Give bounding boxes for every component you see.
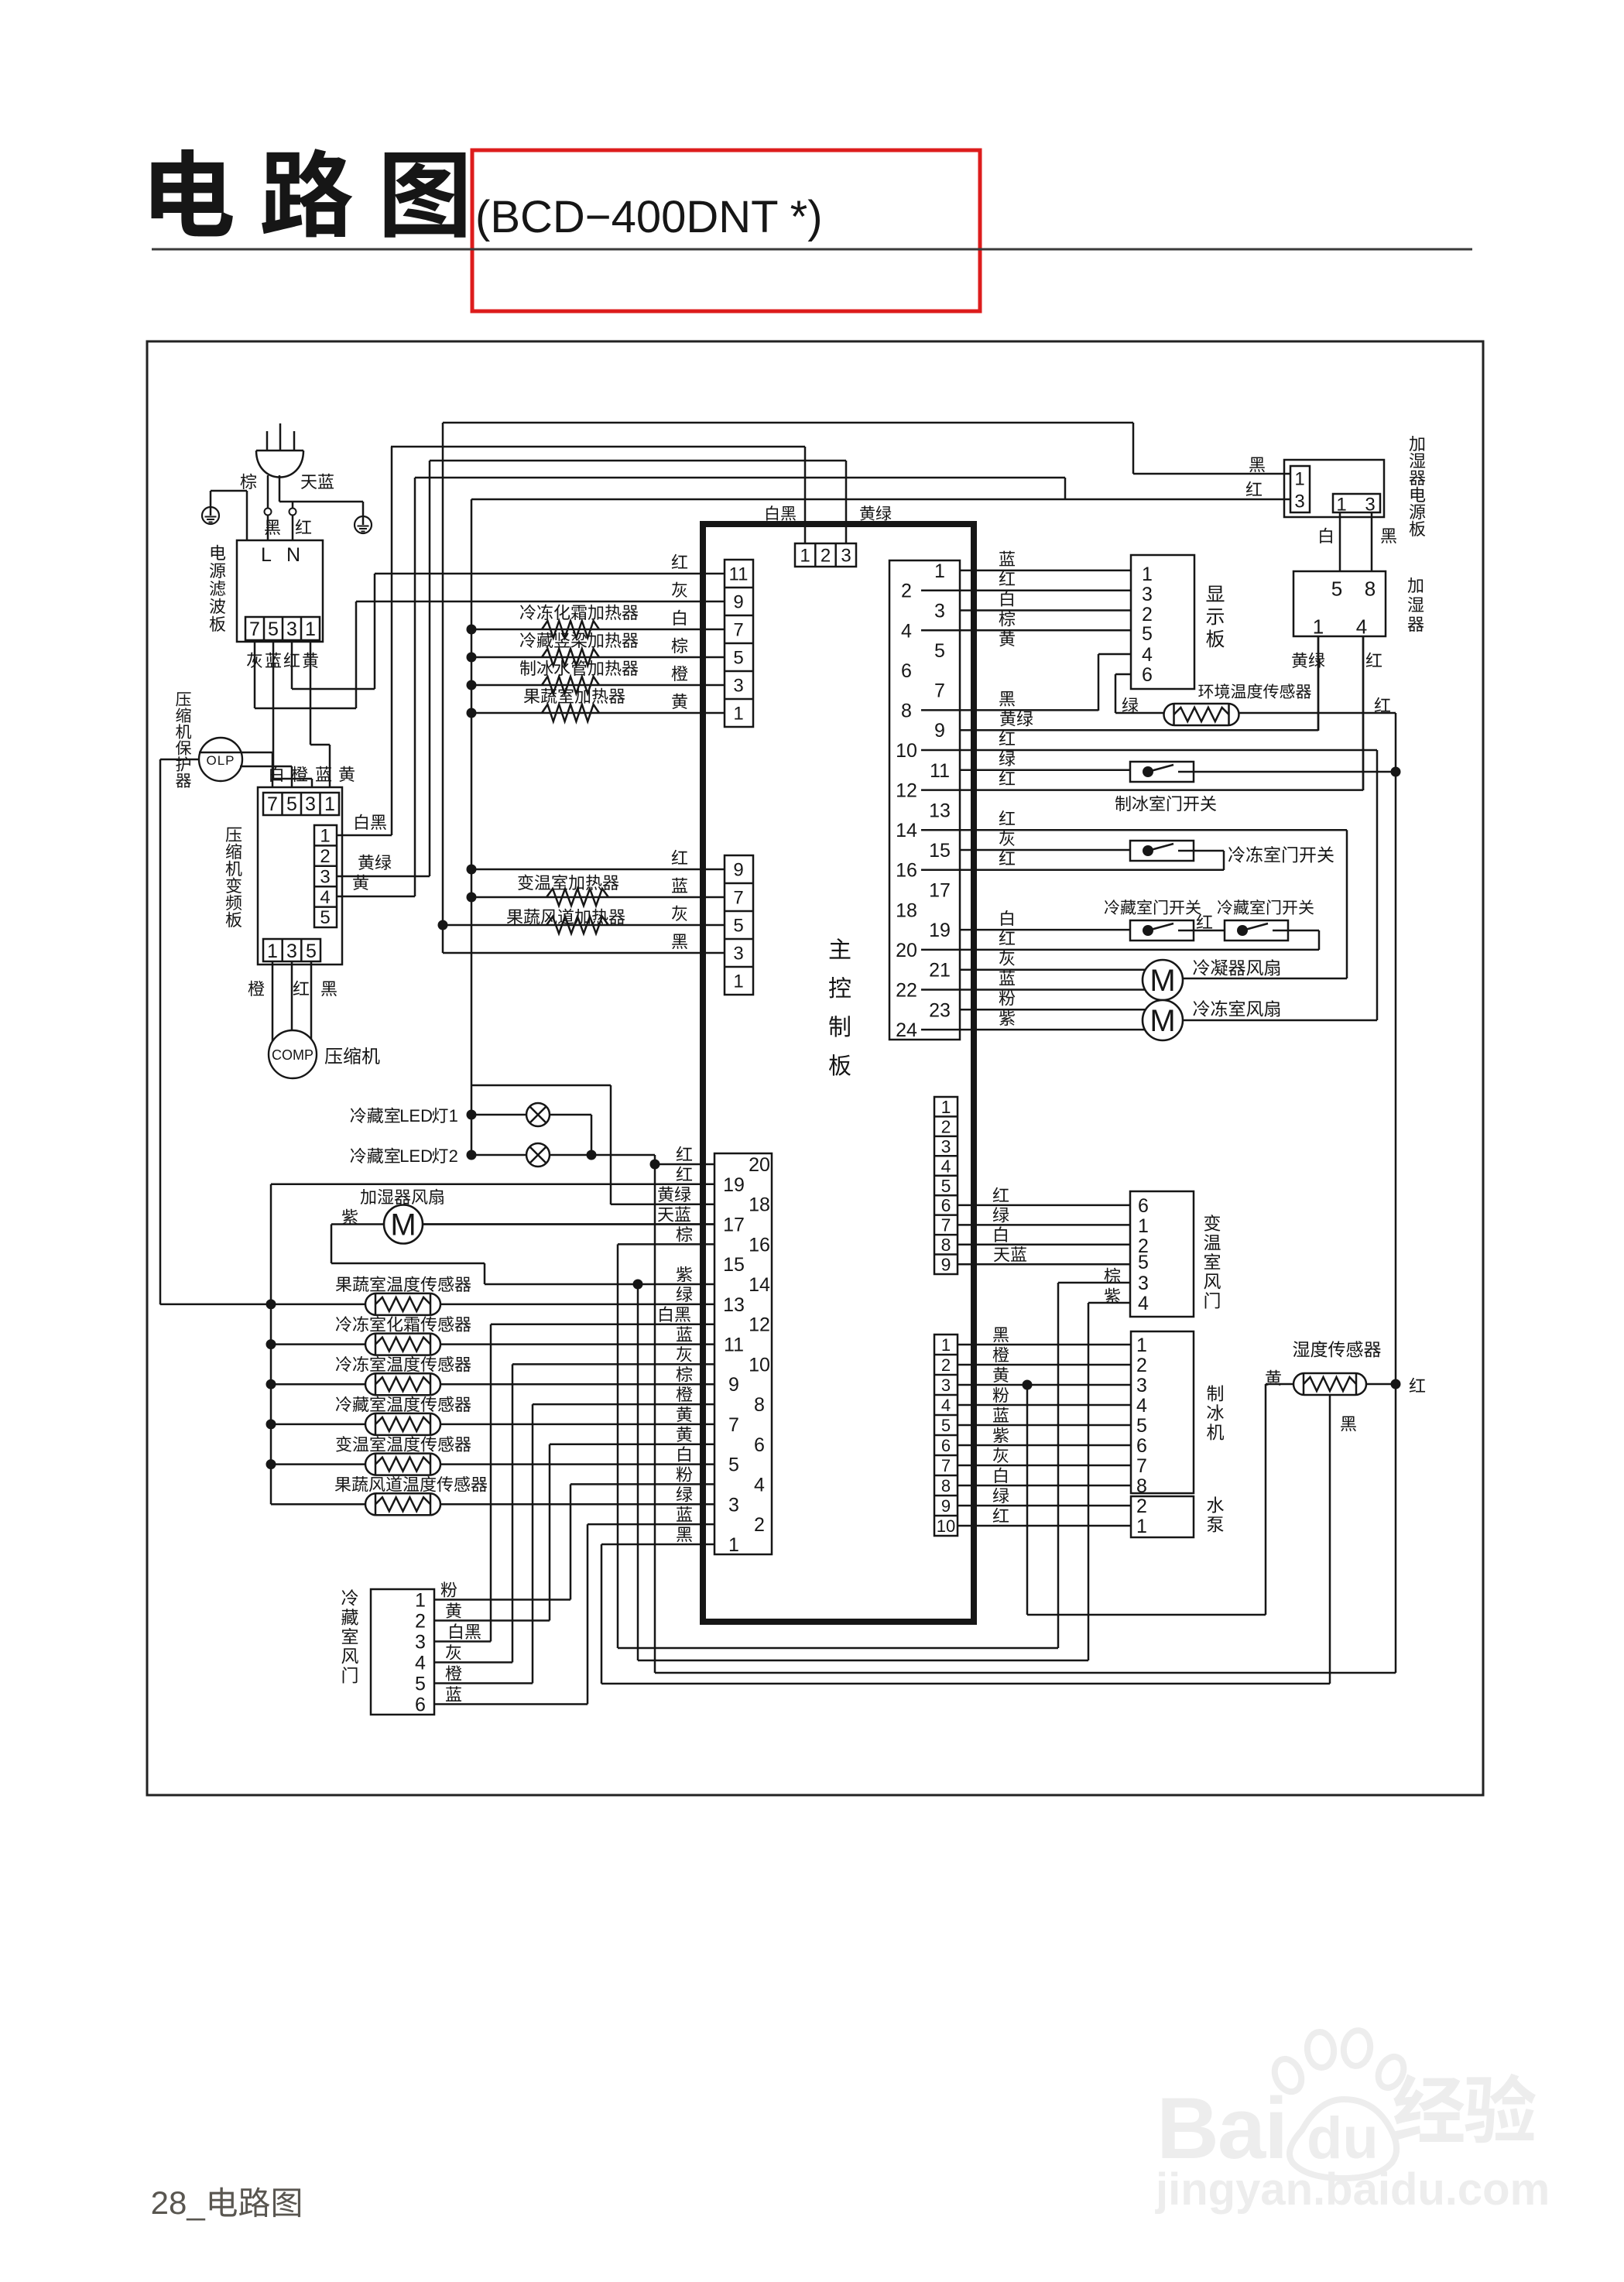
svg-text:7: 7 (267, 793, 278, 815)
svg-text:1: 1 (305, 618, 316, 640)
svg-text:3: 3 (728, 1494, 739, 1516)
svg-text:23: 23 (929, 999, 951, 1021)
svg-text:18: 18 (749, 1194, 770, 1216)
svg-text:1: 1 (1313, 615, 1324, 638)
svg-text:7: 7 (249, 618, 260, 640)
svg-text:L: L (261, 544, 272, 566)
svg-text:4: 4 (1356, 615, 1367, 638)
svg-text:1: 1 (1142, 564, 1153, 585)
svg-text:5: 5 (1136, 1415, 1147, 1437)
svg-text:6: 6 (901, 660, 912, 682)
svg-text:14: 14 (749, 1274, 770, 1296)
svg-text:7: 7 (733, 620, 743, 641)
svg-text:2: 2 (821, 546, 831, 567)
svg-text:1: 1 (1136, 1516, 1147, 1537)
svg-text:1: 1 (267, 941, 278, 962)
svg-text:1: 1 (941, 1097, 951, 1117)
svg-text:17: 17 (929, 880, 951, 902)
svg-text:LED: LED (399, 1106, 433, 1126)
svg-text:5: 5 (728, 1455, 739, 1476)
svg-text:4: 4 (1136, 1395, 1147, 1417)
svg-text:6: 6 (941, 1195, 951, 1215)
svg-text:1: 1 (800, 546, 810, 567)
svg-text:7: 7 (941, 1215, 951, 1235)
svg-text:16: 16 (896, 860, 917, 882)
svg-text:2: 2 (941, 1355, 951, 1375)
svg-text:3: 3 (286, 941, 297, 962)
svg-text:2: 2 (941, 1116, 951, 1136)
svg-text:3: 3 (320, 866, 330, 887)
svg-text:N: N (286, 544, 300, 566)
svg-text:3: 3 (415, 1632, 426, 1653)
svg-text:3: 3 (1142, 584, 1153, 605)
svg-text:9: 9 (934, 720, 945, 742)
svg-text:20: 20 (896, 940, 917, 961)
svg-text:8: 8 (754, 1394, 765, 1416)
svg-text:9: 9 (941, 1255, 951, 1275)
svg-text:5: 5 (733, 648, 743, 669)
svg-text:3: 3 (733, 676, 743, 697)
svg-text:5: 5 (320, 907, 330, 928)
svg-text:3: 3 (286, 618, 297, 640)
svg-text:13: 13 (929, 800, 951, 821)
svg-text:4: 4 (754, 1474, 765, 1496)
svg-text:6: 6 (941, 1436, 951, 1455)
svg-text:9: 9 (728, 1374, 739, 1396)
svg-text:8: 8 (901, 700, 912, 721)
svg-text:7: 7 (934, 680, 945, 702)
svg-text:10: 10 (937, 1516, 955, 1536)
svg-text:1: 1 (728, 1534, 739, 1556)
svg-text:15: 15 (723, 1254, 745, 1276)
svg-text:5: 5 (934, 640, 945, 662)
svg-text:14: 14 (896, 820, 917, 841)
svg-text:1: 1 (934, 560, 945, 582)
svg-text:M: M (1149, 964, 1175, 998)
svg-text:3: 3 (1294, 492, 1304, 512)
svg-text:M: M (1149, 1004, 1175, 1038)
svg-text:10: 10 (896, 740, 917, 762)
svg-text:4: 4 (415, 1653, 426, 1674)
svg-text:1: 1 (733, 971, 743, 992)
svg-text:3: 3 (941, 1376, 951, 1395)
svg-text:2: 2 (415, 1611, 426, 1633)
svg-text:3: 3 (941, 1136, 951, 1156)
svg-text:6: 6 (415, 1694, 426, 1716)
svg-text:4: 4 (1142, 644, 1153, 666)
svg-text:6: 6 (754, 1434, 765, 1456)
svg-text:5: 5 (941, 1176, 951, 1196)
svg-text:24: 24 (896, 1019, 917, 1041)
svg-text:5: 5 (268, 618, 279, 640)
svg-text:9: 9 (733, 860, 743, 881)
svg-text:3: 3 (841, 546, 851, 567)
svg-text:5: 5 (733, 916, 743, 937)
svg-text:11: 11 (729, 564, 749, 585)
svg-text:7: 7 (941, 1456, 951, 1475)
svg-text:2: 2 (449, 1146, 458, 1166)
svg-text:1: 1 (1136, 1335, 1147, 1356)
svg-text:3: 3 (934, 601, 945, 622)
svg-text:du: du (1307, 2106, 1379, 2171)
svg-text:20: 20 (749, 1154, 770, 1176)
svg-text:17: 17 (723, 1215, 745, 1236)
svg-text:3: 3 (1138, 1273, 1149, 1294)
svg-text:1: 1 (733, 704, 743, 725)
svg-text:8: 8 (1136, 1475, 1147, 1497)
svg-text:9: 9 (733, 592, 743, 613)
svg-text:2: 2 (754, 1514, 765, 1536)
svg-text:12: 12 (896, 780, 917, 802)
svg-text:4: 4 (320, 887, 330, 908)
svg-text:10: 10 (749, 1354, 770, 1376)
svg-text:7: 7 (728, 1414, 739, 1436)
svg-text:1: 1 (324, 793, 335, 815)
svg-text:21: 21 (929, 960, 951, 982)
svg-text:5: 5 (415, 1674, 426, 1695)
svg-text:3: 3 (305, 793, 316, 815)
svg-text:2: 2 (320, 846, 330, 867)
svg-text:22: 22 (896, 980, 917, 1002)
svg-text:15: 15 (929, 840, 951, 862)
svg-text:COMP: COMP (272, 1047, 313, 1063)
svg-text:2: 2 (1136, 1496, 1147, 1517)
svg-text:4: 4 (1138, 1293, 1149, 1314)
svg-text:28_: 28_ (151, 2184, 206, 2221)
svg-text:4: 4 (941, 1396, 951, 1415)
svg-text:1: 1 (449, 1106, 458, 1126)
svg-text:(BCD−400DNT *): (BCD−400DNT *) (475, 192, 823, 242)
svg-text:9: 9 (941, 1496, 951, 1516)
svg-text:16: 16 (749, 1234, 770, 1256)
svg-text:4: 4 (901, 620, 912, 642)
svg-text:18: 18 (896, 899, 917, 921)
svg-text:4: 4 (941, 1156, 951, 1176)
svg-text:8: 8 (1365, 577, 1376, 600)
svg-text:3: 3 (1365, 495, 1375, 516)
svg-text:1: 1 (1294, 469, 1304, 490)
svg-text:3: 3 (1136, 1375, 1147, 1396)
svg-text:5: 5 (1331, 577, 1342, 600)
svg-text:6: 6 (1136, 1435, 1147, 1457)
svg-text:19: 19 (929, 920, 951, 941)
svg-text:1: 1 (320, 826, 330, 847)
svg-text:M: M (390, 1208, 416, 1242)
svg-text:OLP: OLP (206, 753, 235, 768)
svg-text:13: 13 (723, 1294, 745, 1316)
svg-text:5: 5 (1142, 623, 1153, 645)
svg-text:19: 19 (723, 1174, 745, 1196)
svg-text:Bai: Bai (1156, 2080, 1287, 2177)
svg-text:LED: LED (399, 1146, 433, 1166)
svg-text:1: 1 (1336, 495, 1346, 516)
svg-text:6: 6 (1138, 1195, 1149, 1217)
svg-text:8: 8 (941, 1235, 951, 1255)
svg-text:2: 2 (901, 581, 912, 602)
svg-text:7: 7 (733, 888, 743, 909)
svg-text:12: 12 (749, 1314, 770, 1336)
svg-text:3: 3 (733, 944, 743, 965)
svg-text:8: 8 (941, 1476, 951, 1496)
svg-text:7: 7 (1136, 1455, 1147, 1477)
svg-text:5: 5 (941, 1416, 951, 1435)
svg-text:2: 2 (1142, 604, 1153, 625)
svg-text:11: 11 (724, 1335, 744, 1356)
svg-text:2: 2 (1136, 1355, 1147, 1376)
svg-text:jingyan.baidu.com: jingyan.baidu.com (1155, 2164, 1550, 2215)
svg-text:6: 6 (1142, 664, 1153, 686)
svg-text:1: 1 (941, 1335, 951, 1355)
svg-text:5: 5 (286, 793, 297, 815)
svg-text:1: 1 (415, 1590, 426, 1612)
svg-text:5: 5 (1138, 1252, 1149, 1273)
svg-text:1: 1 (1138, 1215, 1149, 1237)
svg-text:11: 11 (930, 760, 950, 782)
svg-text:5: 5 (306, 941, 317, 962)
